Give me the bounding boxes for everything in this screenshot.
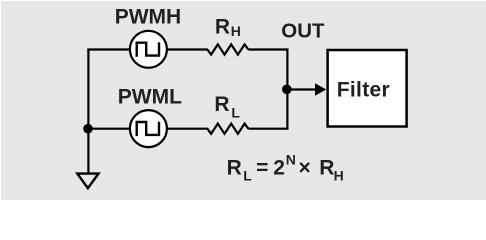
label RH: [215, 15, 241, 39]
svg-text:R: R: [214, 93, 229, 116]
resistor RH: [207, 44, 248, 54]
PWM source PWMH: [130, 31, 167, 68]
wire: top rail left segment to PWMH source: [87, 48, 129, 50]
PWM source PWML: [130, 110, 167, 147]
svg-text:2: 2: [273, 157, 285, 180]
svg-text:R: R: [215, 15, 230, 38]
wire: PWMH source to resistor RH: [168, 48, 209, 50]
svg-text:L: L: [231, 104, 240, 120]
wire: resistor RL to PWML source: [168, 128, 209, 130]
svg-text:OUT: OUT: [281, 19, 325, 42]
svg-text:=: =: [256, 157, 268, 180]
wire: arrow from OUT node into filter: [287, 83, 326, 95]
ground: [77, 174, 98, 189]
svg-text:Filter: Filter: [337, 79, 390, 102]
wire: left vertical bus from top rail down to ground: [87, 50, 89, 174]
label RL: [214, 93, 240, 120]
label PWMH: [115, 5, 182, 28]
wire: resistor RH to right corner, down to OUT node: [248, 50, 287, 90]
label OUT: [281, 19, 325, 42]
svg-text:PWMH: PWMH: [115, 5, 182, 28]
wire: OUT node down and left to resistor RL: [248, 89, 287, 129]
svg-text:×: ×: [299, 157, 311, 180]
svg-text:H: H: [231, 23, 241, 39]
svg-text:PWML: PWML: [118, 86, 182, 109]
label PWML: [118, 86, 182, 109]
svg-text:L: L: [243, 167, 252, 183]
wire: bottom rail left segment from junction to PWML source: [87, 128, 129, 130]
resistor RL: [207, 124, 248, 134]
filter block: [328, 50, 407, 127]
svg-text:R: R: [319, 157, 334, 180]
svg-text:H: H: [334, 167, 344, 183]
svg-text:N: N: [286, 152, 296, 168]
svg-text:R: R: [227, 157, 242, 180]
node: OUT junction dot: [282, 85, 292, 95]
label: equation RL = 2^N x RH: [227, 152, 344, 184]
node: left bus junction dot: [83, 124, 93, 134]
